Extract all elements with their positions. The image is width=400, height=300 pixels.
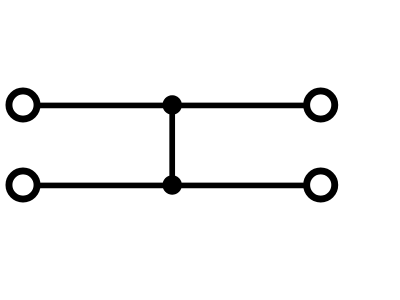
terminal bottom-right	[307, 171, 335, 199]
terminal top-left	[9, 91, 37, 119]
wire vertical bridge	[169, 105, 175, 185]
junction top	[163, 95, 182, 114]
wire top horizontal	[39, 103, 305, 109]
terminal bottom-left	[9, 171, 37, 199]
terminal top-right	[307, 91, 335, 119]
wire bottom horizontal	[39, 183, 305, 189]
junction bottom	[163, 175, 182, 194]
